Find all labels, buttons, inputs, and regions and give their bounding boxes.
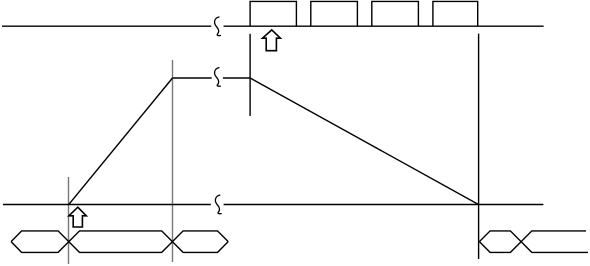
- bus right group rail 1 (top-start, open right end): [479, 231, 588, 253]
- marker line C (black, at first pulse edge): [249, 34, 251, 116]
- marker line D (black, at last pulse edge): [478, 34, 480, 259]
- wire: bottom baseline left segment: [3, 204, 211, 206]
- ramp rising edge (middle signal): [69, 78, 173, 205]
- marker line A (gray, left): [68, 177, 70, 264]
- pulse 1: [250, 1, 296, 26]
- marker line B (gray, middle): [172, 60, 174, 262]
- break symbol middle row: [215, 68, 221, 87]
- bus right group rail 2 (bottom-start, open right end): [479, 231, 586, 253]
- ramp high level right segment: [223, 77, 250, 79]
- ramp high level left segment: [173, 77, 212, 79]
- pulse 3: [372, 1, 419, 26]
- bus left group rail 1 (top-start): [11, 231, 228, 253]
- bus left group rail 2 (bottom-start): [11, 231, 228, 253]
- break symbol top row: [215, 17, 221, 36]
- pulse 4: [433, 1, 478, 26]
- wire: bottom baseline right segment: [224, 204, 544, 206]
- pulse 2: [311, 1, 358, 26]
- break symbol bottom row: [215, 195, 221, 214]
- wire: top signal baseline right segment (continuous under pulses): [224, 25, 544, 27]
- up arrow (bottom, at rising edge start): [69, 207, 86, 227]
- ramp falling edge (middle signal): [250, 78, 478, 205]
- up arrow (top, below first pulse edge): [263, 30, 281, 51]
- wire: top signal baseline left segment: [2, 25, 211, 27]
